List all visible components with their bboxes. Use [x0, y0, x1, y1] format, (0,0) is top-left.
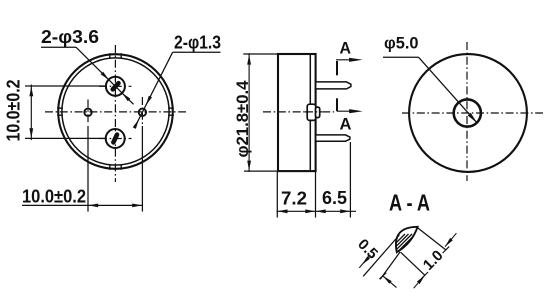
side dim ext top [243, 53, 278, 55]
side dim line [248, 53, 250, 172]
back center hole 5.0 [454, 99, 481, 126]
top mounting hole 3.6 [106, 77, 125, 96]
dim 0.5 tangent line [363, 235, 399, 276]
right pin hole 1.3 [139, 109, 146, 116]
label phi5.0 leader [419, 57, 478, 123]
vdim line [30, 85, 32, 141]
left pin hole 1.3 [84, 109, 91, 116]
svg-text:10.0±0.2: 10.0±0.2 [22, 187, 86, 207]
label phi5.0 arrowhead [468, 113, 478, 123]
side centerline [263, 111, 334, 113]
dim 1.0 tick mid [422, 272, 429, 279]
dim 1.0 tick right [443, 247, 450, 253]
svg-text:2-φ3.6: 2-φ3.6 [41, 27, 99, 47]
side dim ext bottom [244, 170, 279, 172]
bottom notch [109, 164, 111, 170]
dim 1.0 tick left [379, 273, 386, 279]
label 2-1.3 arrow upper [146, 96, 152, 106]
bdim arrow 7.2L [278, 209, 288, 213]
svg-text:A: A [340, 39, 352, 58]
front vertical centerline [114, 45, 116, 182]
dim 1.0 arrow mid [417, 275, 425, 284]
dim 1.0 ext left [380, 252, 400, 279]
top hole slot [109, 80, 121, 93]
bdim arrow 6.5R [340, 209, 350, 213]
hdim arrow left [88, 204, 98, 208]
svg-text:A: A [340, 114, 352, 133]
hdim arrow right [132, 204, 142, 208]
vdim ext top [25, 85, 106, 87]
hdim ext left [87, 126, 89, 212]
left notch [57, 107, 63, 109]
svg-text:φ5.0: φ5.0 [384, 34, 419, 53]
back view circle [409, 54, 527, 172]
bdim arrow 6.5L [316, 209, 326, 213]
svg-text:φ21.8±0.4: φ21.8±0.4 [234, 80, 252, 158]
section mark top vertical [336, 61, 338, 75]
side nub tip [316, 107, 320, 118]
bdim ext2 [315, 172, 317, 218]
dim 1.0 arrow left [383, 276, 392, 284]
svg-text:A - A: A - A [389, 190, 430, 216]
dim 1.0 arrow right [445, 238, 453, 247]
bdim arrow 7.2R [305, 209, 315, 213]
side dim arrow top [247, 55, 251, 65]
front view inner circle [62, 58, 169, 165]
bottom mounting hole 3.6 [106, 129, 125, 148]
label 2-1.3 arrow lower [133, 119, 139, 129]
vdim ext bottom [25, 137, 106, 139]
label 2-3.6 arrow lower [122, 93, 130, 101]
svg-text:10.0±0.2: 10.0±0.2 [4, 80, 24, 142]
label 2-1.3 leader [135, 52, 173, 128]
front view outer circle [58, 54, 173, 169]
vdim arrow top [29, 86, 33, 96]
bdim ext3 [349, 142, 351, 218]
bottom pin [316, 135, 350, 141]
dim 0.5 arrow [362, 256, 370, 265]
side dim arrow bottom [247, 161, 251, 171]
top notch [109, 53, 111, 59]
dim 0.5 stub line [362, 255, 371, 265]
back horizontal centerline [402, 112, 543, 114]
label 2-3.6 shelf [41, 46, 76, 48]
top hole horizontal centerline tick [99, 85, 132, 87]
side centerline over nub [305, 111, 322, 113]
left small hole vertical tick [87, 100, 89, 126]
bottom hole slot [110, 132, 120, 146]
svg-text:2-φ1.3: 2-φ1.3 [174, 33, 221, 53]
side face seam [309, 55, 311, 171]
hdim ext right [141, 126, 143, 212]
dim 1.0 ext right [417, 228, 446, 250]
svg-text:6.5: 6.5 [322, 188, 347, 208]
section mark top arrow line [336, 59, 357, 61]
section mark bottom arrowhead [349, 109, 363, 113]
label 2-3.6 arrow upper [101, 72, 109, 80]
pin section hatching [381, 234, 426, 258]
label 2-1.3 shelf [173, 51, 221, 53]
section mark top arrowhead [349, 58, 363, 62]
bdim line [277, 210, 357, 212]
label 2-3.6 leader [76, 47, 134, 104]
bottom hole horizontal centerline tick [99, 138, 132, 140]
right notch [168, 107, 174, 109]
right small hole vertical tick [141, 97, 143, 124]
side view body [278, 54, 316, 171]
section mark bottom vertical [336, 98, 338, 111]
top pin [316, 82, 351, 89]
label phi5.0 shelf [383, 56, 419, 58]
side nub body [307, 104, 316, 120]
vdim arrow bottom [29, 128, 33, 138]
svg-text:7.2: 7.2 [281, 189, 307, 209]
section mark bottom arrow line [337, 110, 357, 112]
pin section lens outline [396, 227, 418, 252]
back vertical centerline [466, 42, 468, 181]
dim 1.0 proj line [401, 252, 425, 275]
bdim ext1 [276, 172, 278, 218]
front horizontal centerline [45, 111, 186, 113]
hdim shelf+line [22, 204, 142, 206]
